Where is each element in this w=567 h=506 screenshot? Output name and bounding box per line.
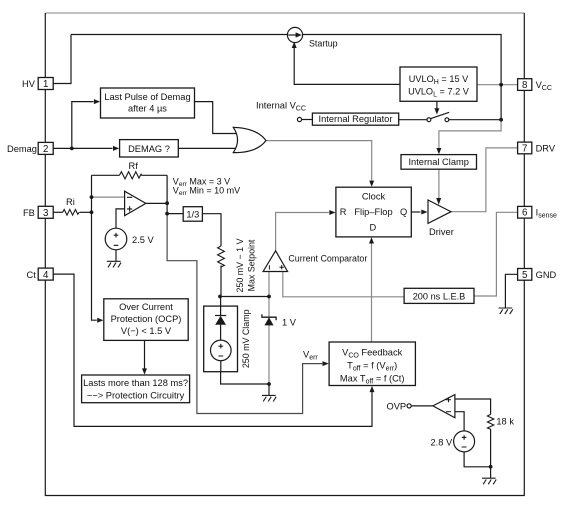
svg-text:HV: HV [22, 79, 36, 89]
svg-text:Ct: Ct [27, 270, 37, 280]
arrow UVLO to switch [434, 108, 439, 114]
resistor 250mV-1V max setpoint [218, 246, 225, 267]
switch contact right [445, 118, 449, 122]
wire Rf feedback top [92, 174, 168, 176]
wire op-amp output node [146, 175, 183, 213]
svg-text:2.8 V: 2.8 V [431, 437, 454, 447]
svg-text:Q: Q [400, 207, 407, 217]
internal Vcc terminal [297, 117, 301, 121]
pin 7 box [518, 142, 532, 154]
wire UVLO right to Vcc node [477, 84, 501, 86]
block UVLO [400, 67, 477, 101]
wire comparator plus input from LEB [283, 272, 404, 297]
svg-text:Rf: Rf [129, 161, 139, 171]
wire driver output to pin 7 [451, 148, 518, 212]
node OVP ground [489, 465, 493, 469]
wire OR gate output to clock flip-flop [266, 141, 372, 181]
svg-text:Lasts more than 128 ms?: Lasts more than 128 ms? [83, 378, 188, 388]
wire OCP to protection box [144, 340, 146, 368]
svg-text:250 mV − 1 V: 250 mV − 1 V [235, 238, 245, 292]
wire Ri to FB node [80, 211, 92, 213]
wire pin 4 Ct to VCO feedback [52, 274, 372, 426]
node FB pin [90, 210, 94, 214]
ground below OVP divider [482, 478, 496, 484]
wire FB node vertical to OCP [92, 175, 97, 320]
block clock flip-flop [336, 187, 411, 237]
resistor 18k [487, 414, 493, 429]
svg-text:GND: GND [536, 270, 557, 280]
svg-text:18 k: 18 k [496, 417, 514, 427]
wire HV pin to startup rail [53, 35, 71, 84]
wire op-amp minus input [92, 196, 125, 198]
pin 1 box [38, 78, 53, 90]
svg-text:Driver: Driver [429, 227, 454, 237]
op-amp U1 error amplifier [125, 191, 146, 216]
node switch output [499, 118, 503, 122]
wire OVP terminal to comparator [411, 405, 433, 407]
wire 2.8V ref to ground node [464, 452, 491, 467]
pin 3 box [38, 206, 53, 218]
block over current protection [104, 299, 188, 341]
arrow into DEMAG? box [113, 146, 119, 151]
wire 2.5V ref to ground [115, 250, 117, 261]
arrow into flip-flop D input [369, 237, 374, 243]
resistor Rf [119, 172, 141, 179]
block last pulse of demag [101, 88, 195, 118]
svg-text:Startup: Startup [309, 39, 338, 49]
svg-text:3: 3 [43, 208, 48, 219]
svg-text:1/3: 1/3 [186, 209, 199, 219]
wire UVLO to switch arrow stem [436, 101, 438, 108]
wire OVP plus input to 18k [455, 399, 491, 414]
wire internal Vcc terminal to regulator [302, 119, 313, 121]
arrow Verr into VCO feedback box [323, 361, 329, 366]
wire 18k to ground node [490, 429, 492, 478]
svg-text:D: D [370, 223, 377, 233]
svg-text:1 V: 1 V [282, 317, 297, 327]
wire clamp box top [220, 297, 222, 307]
pin 8 box [518, 79, 532, 91]
zener diode 1V [262, 314, 276, 325]
block protection circuitry [82, 375, 190, 403]
svg-text:Demag: Demag [7, 144, 37, 154]
wire pin 2 Demag to DEMAG? [53, 147, 112, 149]
arrow into last pulse box [94, 99, 100, 104]
wire switch node to internal clamp [439, 120, 501, 149]
svg-text:Max Setpoint: Max Setpoint [247, 239, 257, 291]
OVP comparator [433, 395, 455, 418]
wire zener branch [268, 297, 270, 385]
arrow into startup source [292, 42, 297, 48]
OVP terminal [407, 404, 411, 408]
block VCO feedback [329, 342, 415, 386]
wire OVP minus input to 2.8V ref [455, 412, 464, 431]
OR gate demag [233, 127, 266, 152]
node Verr takeoff [165, 212, 169, 216]
svg-text:OVP: OVP [387, 401, 407, 411]
wire pin 5 GND to ground [505, 274, 517, 308]
switch lever [431, 112, 450, 118]
node error amp output [165, 201, 169, 205]
wire setpoint resistor to rail [220, 266, 222, 297]
block DEMAG? [120, 140, 179, 157]
wire demag node to last pulse box [72, 102, 94, 149]
svg-text:Last Pulse of Demag: Last Pulse of Demag [104, 92, 190, 102]
node clamp ground [267, 382, 271, 386]
block 1/3 divider [183, 207, 202, 222]
svg-text:after 4 µs: after 4 µs [128, 104, 167, 114]
current comparator [263, 251, 288, 272]
wire regulator to switch [399, 119, 427, 121]
svg-text:8: 8 [522, 80, 527, 91]
block internal regulator [312, 113, 398, 125]
wire clamp box bottom to zener ground node [221, 372, 269, 384]
wire 1/3 box to setpoint resistor [202, 214, 221, 246]
svg-text:1: 1 [43, 79, 48, 90]
resistor Ri [63, 210, 80, 216]
ground below 2.5V [107, 261, 121, 267]
pin 5 box [518, 269, 532, 281]
wire switch to Vcc switch node [449, 119, 501, 121]
svg-text:Current Comparator: Current Comparator [288, 253, 367, 263]
svg-text:Over Current: Over Current [119, 302, 173, 312]
startup current source [287, 27, 302, 42]
wire DEMAG? to OR gate bottom input [178, 147, 237, 149]
svg-text:7: 7 [522, 143, 527, 154]
arrow Ct into VCO feedback box [370, 386, 375, 392]
pin 6 box [518, 206, 532, 218]
driver triangle [428, 200, 451, 223]
startup source arrow [288, 32, 302, 37]
wire Vcc node to pin 8 [501, 84, 517, 86]
arrow into OCP box [97, 318, 103, 323]
wire VCO feedback to flip-flop D input [371, 244, 373, 343]
wire pin 3 FB to Ri [52, 211, 63, 213]
block 200ns LEB [404, 288, 474, 303]
node FB minus input [90, 195, 94, 199]
voltage source 2.5V [105, 228, 127, 250]
wire Verr path from error amp to VCO feedback [167, 214, 322, 414]
block 250mV clamp outline [204, 306, 238, 372]
svg-text:250 mV Clamp: 250 mV Clamp [241, 309, 251, 368]
wire pin 6 Isense to LEB [474, 212, 518, 296]
pin 4 box [38, 268, 53, 280]
svg-text:4: 4 [43, 270, 49, 281]
svg-text:Protection (OCP): Protection (OCP) [111, 314, 182, 324]
svg-text:V(−) < 1.5 V: V(−) < 1.5 V [121, 326, 172, 336]
svg-text:Internal Clamp: Internal Clamp [408, 157, 468, 167]
svg-text:Ri: Ri [66, 197, 75, 207]
arrow Q into driver [421, 210, 427, 215]
arrowheads [94, 42, 442, 392]
ground pin 5 [499, 308, 513, 314]
wire last pulse box to OR gate top input [195, 102, 237, 134]
svg-text:R: R [340, 207, 347, 217]
wire startup rail left [71, 34, 288, 36]
svg-text:DRV: DRV [536, 143, 556, 153]
node Vcc [499, 83, 503, 87]
arrow into driver top [436, 198, 441, 205]
arrow into flip-flop R input [329, 210, 335, 215]
svg-text:Flip–Flop: Flip–Flop [354, 207, 392, 217]
svg-text:Internal Regulator: Internal Regulator [319, 114, 393, 124]
wire internal clamp to driver [438, 169, 440, 198]
current source 250mV clamp [211, 340, 232, 372]
diode in clamp [215, 306, 226, 340]
block internal clamp [401, 155, 477, 170]
arrow into internal clamp [436, 148, 441, 154]
wire setpoint rail [220, 296, 269, 298]
wire Q output to driver [411, 211, 420, 213]
node demag split [70, 147, 74, 151]
IC outer border top edge [45, 12, 524, 14]
wire comparator output to flip-flop R input [276, 213, 329, 251]
svg-text:Clock: Clock [362, 192, 386, 202]
voltage source 2.8V [454, 431, 475, 452]
svg-text:DEMAG ?: DEMAG ? [128, 144, 170, 154]
wire op-amp plus input to 2.5V ref [116, 209, 125, 229]
switch contact left [427, 118, 431, 122]
svg-text:2.5 V: 2.5 V [132, 235, 155, 245]
wire comparator minus input [268, 272, 270, 297]
svg-text:6: 6 [522, 208, 527, 219]
svg-text:2: 2 [43, 144, 48, 155]
wire zener node to ground [268, 384, 270, 395]
node setpoint rail right [267, 295, 271, 299]
ground below zener [262, 395, 276, 401]
wire UVLO output to startup control [294, 47, 400, 85]
svg-text:FB: FB [23, 208, 35, 218]
wire startup rail right to Vcc node [303, 35, 502, 120]
svg-text:200 ns L.E.B: 200 ns L.E.B [413, 292, 466, 302]
svg-text:−−> Protection Circuitry: −−> Protection Circuitry [87, 390, 185, 400]
arrow OCP into protection box [142, 368, 147, 374]
svg-text:5: 5 [522, 270, 527, 281]
pin 2 box [38, 142, 53, 154]
arrow into flip-flop clock input [369, 181, 374, 187]
node setpoint rail left [218, 295, 222, 299]
